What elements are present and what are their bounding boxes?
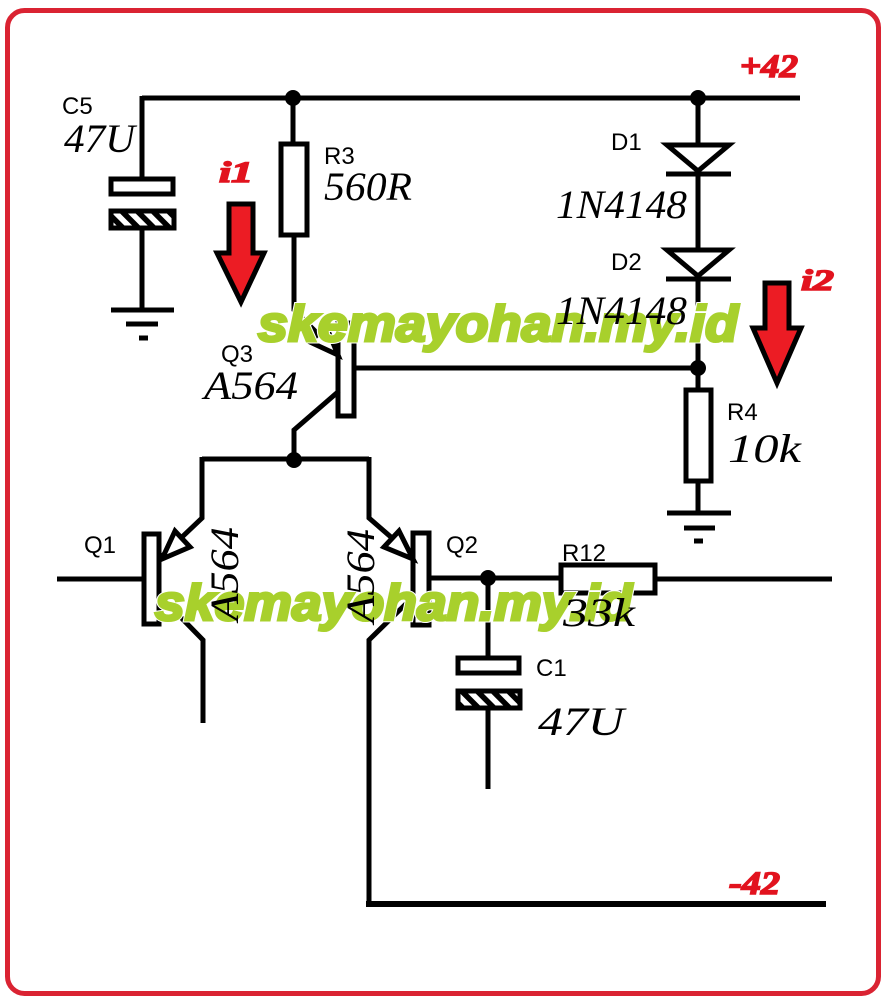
arrow i1 [217,204,264,302]
arrow i2 [753,283,801,383]
wire D1 top [696,98,701,144]
ground [111,310,174,338]
node top-left junction [285,90,301,106]
svg-text:Q2: Q2 [446,532,478,559]
watermark skemayohan.my.id upper [258,296,740,352]
wire C1 top [486,578,491,659]
wire Q1 base [57,577,144,582]
svg-text:i2: i2 [801,264,834,297]
svg-text:-42: -42 [729,866,780,902]
capacitor C5 [111,179,174,228]
svg-text:C1: C1 [536,655,567,682]
wire R4 bottom [696,481,701,513]
wire top rail [142,96,800,101]
svg-text:R12: R12 [562,540,606,567]
wire Q2 collector [369,595,415,904]
ground R4 [667,513,731,541]
transistor Q3 [310,323,354,416]
wire R12 right [655,577,832,582]
svg-text:1N4148: 1N4148 [556,182,687,227]
svg-text:D1: D1 [611,129,642,156]
wire D2 bottom [696,277,701,370]
resistor R4 [686,390,711,481]
svg-text:A564: A564 [202,527,247,624]
svg-text:R4: R4 [727,399,758,426]
diode D1 [666,145,731,174]
transistor Q1 [144,531,190,624]
svg-text:47U: 47U [64,116,138,161]
svg-text:560R: 560R [324,164,412,209]
resistor R12 [561,565,655,593]
diode D2 [666,250,731,279]
capacitor C1 [458,658,520,708]
wire R4 top [696,368,701,392]
svg-text:A564: A564 [201,363,298,408]
svg-text:D2: D2 [611,249,642,276]
wire D1-D2 [696,171,701,252]
svg-text:i1: i1 [219,156,253,189]
wire Q2 base [429,576,561,581]
wire Q3 collector [294,391,339,462]
wire Q1 collector [159,595,203,723]
watermark skemayohan.my.id lower [155,575,634,631]
resistor R3 [281,144,307,235]
wire C5 top [140,96,145,180]
svg-text:1N4148: 1N4148 [556,288,687,333]
svg-text:Q1: Q1 [84,532,116,559]
node top-right junction [690,90,706,106]
wire R3 top [291,98,296,146]
transistor Q2 [384,531,429,625]
node tail junction [286,452,302,468]
svg-text:47U: 47U [538,699,628,744]
svg-text:33k: 33k [562,590,637,635]
wire R3 bottom [294,235,338,354]
wire bottom rail [366,901,826,907]
wire C5 bottom [140,228,145,310]
svg-text:+42: +42 [740,49,798,85]
wire tail horizontal [202,457,369,462]
wire C1 bottom [486,708,491,789]
node Q2 base junction [480,570,496,586]
svg-text:10k: 10k [728,426,803,471]
svg-text:A564: A564 [338,529,383,626]
node R4 junction [690,360,706,376]
wire Q3 base [356,366,698,371]
wire tail left to Q1 emitter [161,457,202,557]
wire tail right to Q2 emitter [369,457,414,557]
